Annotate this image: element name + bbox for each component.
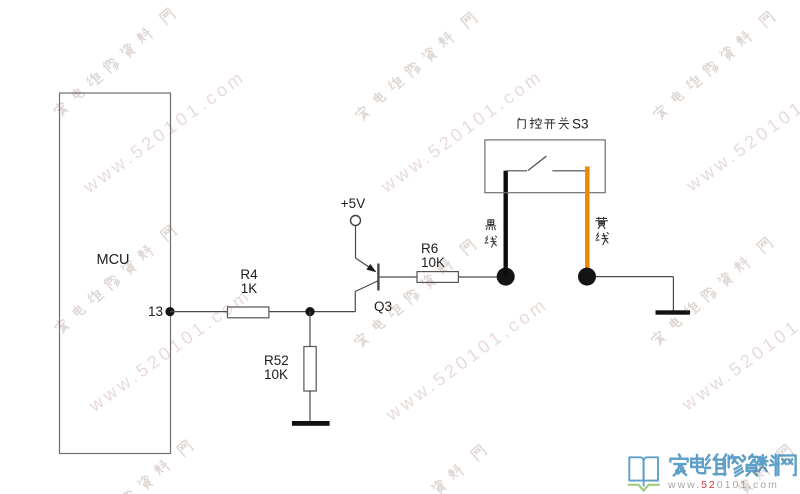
watermark CJK C-right bbox=[670, 444, 794, 494]
wire down to right ground bbox=[672, 277, 674, 311]
node A junction dot bbox=[305, 307, 314, 316]
watermark CJK C-mid bbox=[363, 444, 487, 494]
resistor R52 bbox=[304, 347, 316, 392]
watermark www A-left bbox=[79, 66, 250, 198]
wire node A down to R52 bbox=[309, 312, 311, 347]
logo text 家电维修资料网 bbox=[670, 454, 795, 476]
svg-text:10K: 10K bbox=[264, 367, 288, 382]
svg-text:R6: R6 bbox=[421, 241, 438, 256]
MCU box bbox=[60, 93, 171, 454]
svg-text:Q3: Q3 bbox=[374, 299, 392, 314]
wire R6 to black node bbox=[458, 276, 500, 278]
+5V supply terminal bbox=[351, 216, 361, 226]
watermark www B-left bbox=[84, 284, 255, 416]
yellow wire (orange) bbox=[585, 167, 590, 277]
watermark CJK A-right bbox=[652, 11, 776, 121]
watermark www A-right bbox=[682, 64, 800, 196]
logo book icon bbox=[629, 457, 658, 486]
wire yellow dot to right bbox=[596, 276, 673, 278]
svg-text:MCU: MCU bbox=[96, 252, 129, 268]
wire R52 to ground bbox=[309, 391, 311, 421]
transistor Q3 bbox=[355, 258, 416, 312]
svg-text:R4: R4 bbox=[240, 267, 258, 282]
node yellow-wire dot bbox=[578, 268, 596, 286]
switch S3 label 门控开关S3 bbox=[518, 118, 569, 129]
black wire label 黑线 bbox=[485, 220, 497, 247]
svg-text:www.520101.com: www.520101.com bbox=[682, 64, 800, 196]
watermark CJK A-left bbox=[52, 8, 176, 118]
logo green underline bbox=[628, 485, 660, 491]
svg-text:S3: S3 bbox=[572, 117, 589, 132]
wire pin13 to R4 bbox=[170, 311, 228, 313]
watermark CJK A-mid bbox=[354, 12, 478, 122]
switch S3 contacts and lever bbox=[506, 156, 589, 171]
black wire (thick) bbox=[504, 171, 508, 277]
node pin13 dot bbox=[165, 307, 174, 316]
watermark CJK B-right bbox=[650, 237, 774, 347]
watermark CJK B-mid bbox=[353, 239, 477, 349]
transistor Q3 arrowhead bbox=[366, 264, 376, 272]
watermark CJK C-left bbox=[70, 440, 194, 494]
watermark www B-mid bbox=[381, 293, 552, 425]
node black-wire dot bbox=[497, 268, 515, 286]
svg-text:www.520101.com: www.520101.com bbox=[667, 479, 779, 491]
resistor R6 bbox=[417, 272, 458, 283]
svg-text:13: 13 bbox=[148, 304, 163, 319]
ground under R52 bbox=[292, 421, 330, 426]
svg-text:R52: R52 bbox=[264, 353, 289, 368]
resistor R4 bbox=[228, 307, 269, 318]
wire +5V to Q3 emitter bbox=[355, 226, 357, 259]
svg-text:+5V: +5V bbox=[341, 196, 365, 211]
yellow wire label 黄线 bbox=[596, 217, 609, 244]
ground right bbox=[656, 310, 691, 314]
svg-text:www.520101.com: www.520101.com bbox=[677, 283, 800, 415]
wire R4 to node A bbox=[269, 311, 355, 313]
switch S3 box bbox=[485, 140, 605, 193]
watermark www B-right bbox=[677, 283, 800, 415]
svg-text:www.520101.com: www.520101.com bbox=[381, 293, 552, 425]
watermark CJK B-left bbox=[53, 225, 177, 335]
watermark www A-mid bbox=[376, 65, 547, 197]
